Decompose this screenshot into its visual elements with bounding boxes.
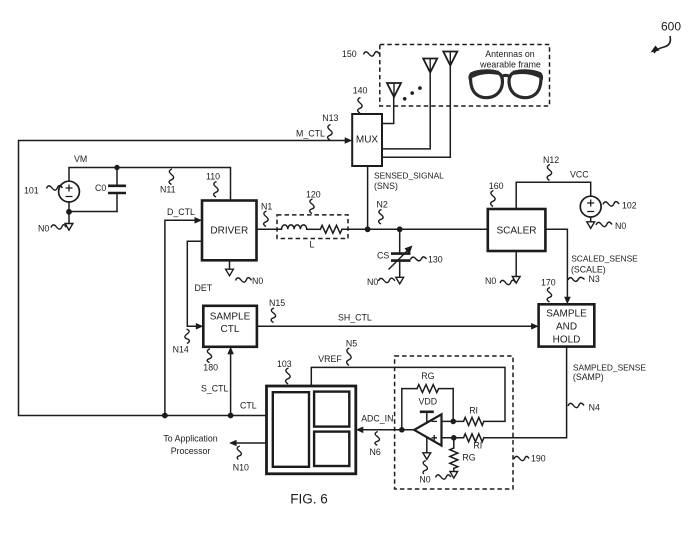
svg-text:HOLD: HOLD <box>553 334 581 345</box>
svg-text:N2: N2 <box>377 200 388 210</box>
svg-text:110: 110 <box>206 172 220 182</box>
svg-text:N13: N13 <box>322 113 338 123</box>
svg-text:DET: DET <box>195 283 213 293</box>
svg-text:SENSED_SIGNAL: SENSED_SIGNAL <box>374 171 444 181</box>
svg-text:RI: RI <box>473 441 482 451</box>
svg-text:N0: N0 <box>419 475 430 485</box>
svg-text:wearable frame: wearable frame <box>479 60 541 70</box>
svg-text:N1: N1 <box>261 202 272 212</box>
svg-text:600: 600 <box>661 20 681 34</box>
svg-text:170: 170 <box>541 278 556 288</box>
svg-text:SCALED_SENSE: SCALED_SENSE <box>571 254 638 264</box>
svg-text:N0: N0 <box>485 276 496 286</box>
svg-text:VDD: VDD <box>419 397 438 407</box>
svg-text:160: 160 <box>489 181 504 191</box>
svg-text:To Application: To Application <box>163 434 217 444</box>
svg-text:D_CTL: D_CTL <box>167 207 195 217</box>
svg-text:N0: N0 <box>252 276 263 286</box>
svg-text:102: 102 <box>622 201 637 211</box>
svg-text:(SCALE): (SCALE) <box>571 265 606 275</box>
svg-text:N12: N12 <box>543 155 559 165</box>
svg-text:S_CTL: S_CTL <box>201 384 228 394</box>
svg-text:FIG. 6: FIG. 6 <box>290 492 328 507</box>
svg-text:N3: N3 <box>589 274 600 284</box>
svg-text:L: L <box>310 240 315 250</box>
svg-text:120: 120 <box>306 190 321 200</box>
svg-text:SAMPLE: SAMPLE <box>210 312 251 323</box>
svg-text:CS: CS <box>377 251 389 261</box>
svg-text:190: 190 <box>531 454 546 464</box>
svg-text:RI: RI <box>469 406 478 416</box>
svg-text:150: 150 <box>342 49 357 59</box>
svg-text:N5: N5 <box>346 339 357 349</box>
svg-text:N15: N15 <box>269 298 285 308</box>
svg-text:N0: N0 <box>615 221 626 231</box>
svg-text:Antennas on: Antennas on <box>485 49 535 59</box>
svg-text:M_CTL: M_CTL <box>296 129 325 139</box>
svg-text:SCALER: SCALER <box>496 226 536 237</box>
svg-text:CTL: CTL <box>221 324 240 335</box>
svg-text:RG: RG <box>462 453 475 463</box>
svg-text:MUX: MUX <box>356 135 379 146</box>
svg-text:CTL: CTL <box>240 400 257 410</box>
svg-text:C0: C0 <box>95 183 106 193</box>
svg-text:RG: RG <box>421 371 434 381</box>
svg-text:N6: N6 <box>370 447 381 457</box>
svg-text:SH_CTL: SH_CTL <box>338 313 372 323</box>
svg-text:N14: N14 <box>173 344 189 354</box>
svg-text:140: 140 <box>353 86 368 96</box>
svg-text:101: 101 <box>24 186 39 196</box>
svg-text:103: 103 <box>277 359 292 369</box>
svg-text:(SAMP): (SAMP) <box>573 372 604 382</box>
svg-text:N11: N11 <box>160 185 176 195</box>
svg-text:N10: N10 <box>233 463 249 473</box>
svg-text:ADC_IN: ADC_IN <box>361 414 393 424</box>
svg-text:130: 130 <box>428 255 443 265</box>
svg-text:DRIVER: DRIVER <box>210 226 248 237</box>
svg-text:N0: N0 <box>38 224 49 234</box>
svg-text:VREF: VREF <box>318 354 342 364</box>
svg-text:VCC: VCC <box>570 170 589 180</box>
svg-text:(SNS): (SNS) <box>374 181 398 191</box>
svg-text:Processor: Processor <box>171 446 211 456</box>
svg-text:N0: N0 <box>367 277 378 287</box>
svg-text:VM: VM <box>74 154 87 164</box>
svg-text:AND: AND <box>556 321 577 332</box>
svg-text:N4: N4 <box>589 403 600 413</box>
svg-text:SAMPLED_SENSE: SAMPLED_SENSE <box>573 363 646 373</box>
svg-text:180: 180 <box>203 363 218 373</box>
svg-text:SAMPLE: SAMPLE <box>546 308 587 319</box>
